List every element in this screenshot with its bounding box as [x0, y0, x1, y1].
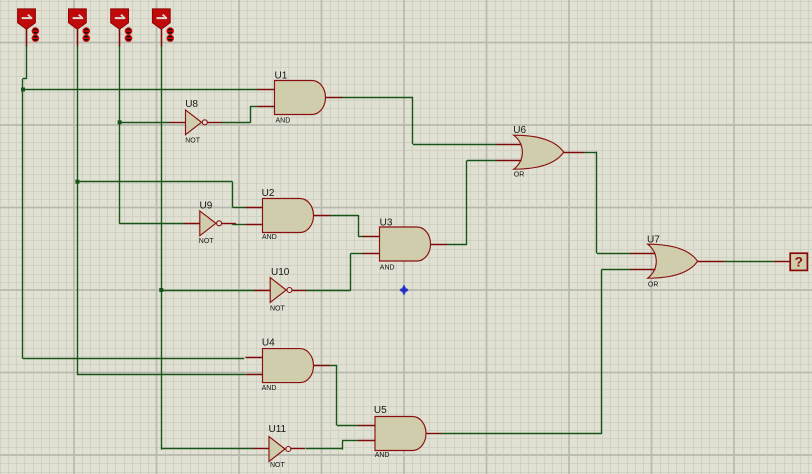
U5 input pin stubs [358, 426, 376, 441]
AND gate U3 [380, 227, 431, 261]
U1 output pin stub [326, 97, 343, 99]
wire net B vertical from terminal B [77, 46, 79, 375]
wire net C to U8 input [120, 122, 170, 124]
terminal D pin stem [161, 29, 163, 46]
label U3 [380, 218, 393, 229]
svg-text:U10: U10 [271, 267, 290, 278]
U4 input pin stubs [246, 358, 264, 375]
OR gate U7 [648, 244, 698, 278]
label U4 [262, 338, 275, 349]
svg-text:U9: U9 [200, 201, 213, 212]
junction node A [21, 88, 25, 92]
label AND [262, 385, 277, 392]
wire net D vertical from terminal D [161, 46, 163, 450]
OR gate U6 [514, 135, 564, 169]
label NOT [185, 138, 201, 145]
wire U6 output to U7 pin1 [584, 152, 631, 254]
svg-text:U3: U3 [380, 218, 393, 229]
svg-text:AND: AND [380, 265, 395, 272]
terminal B pin stem [77, 29, 79, 46]
U10 output pin stub [292, 290, 306, 292]
U6 output pin stub [564, 152, 585, 154]
svg-text:NOT: NOT [270, 462, 286, 469]
junction node C [118, 120, 122, 124]
output terminal pin stub [774, 261, 790, 263]
wire U3 output to U6 pin2 [447, 160, 497, 244]
wire net A vertical from terminal A [23, 46, 27, 359]
output terminal ? (unlabeled) [790, 253, 807, 270]
junction node B [75, 180, 79, 184]
U7 output pin stub [698, 261, 725, 263]
label U8 [185, 99, 198, 110]
svg-text:U2: U2 [262, 188, 275, 199]
U8 input pin stub [170, 122, 186, 124]
U4 output pin stub [314, 365, 331, 367]
label U1 [275, 70, 288, 81]
U3 output pin stub [431, 244, 448, 246]
U11 output pin stub [291, 448, 305, 450]
svg-text:AND: AND [262, 234, 277, 241]
label U9 [200, 201, 213, 212]
label AND [262, 234, 277, 241]
wire U2 output to U3 pin1 [330, 215, 363, 237]
terminal A pin stem [26, 29, 28, 46]
label AND [276, 118, 291, 125]
wire U8 output to U1 pin2 [221, 106, 258, 123]
U8 output pin stub [208, 122, 222, 124]
wire net C to U9 input [120, 223, 185, 225]
wire net B to U2 pin1 [77, 182, 246, 208]
svg-text:U11: U11 [269, 424, 287, 435]
svg-text:AND: AND [262, 385, 277, 392]
label OR [514, 171, 525, 178]
label NOT [270, 462, 286, 469]
label U7 [647, 234, 660, 245]
U2 input pin stubs [246, 208, 264, 225]
wire U5 output to U7 pin2 [441, 270, 632, 435]
AND gate U1 [275, 81, 326, 115]
NOT gate U11 [269, 437, 291, 462]
svg-text:U5: U5 [374, 405, 387, 416]
wire U9 output to U2 pin2 [232, 224, 246, 226]
terminal C pin stem [119, 29, 121, 46]
label NOT [270, 306, 286, 313]
U7 input pin stubs [631, 254, 656, 270]
svg-text:U8: U8 [185, 99, 198, 110]
label U5 [374, 405, 387, 416]
label NOT [199, 238, 215, 245]
label U11 [269, 424, 287, 435]
input terminal C (LOGICSTATE) [111, 9, 133, 42]
U9 input pin stub [184, 223, 200, 225]
svg-text:U4: U4 [262, 338, 275, 349]
wire U7 output to output terminal [724, 261, 774, 263]
label U10 [271, 267, 290, 278]
wire net B to U4 pin2 [77, 374, 245, 376]
label OR [648, 282, 659, 289]
svg-text:AND: AND [276, 118, 291, 125]
AND gate U5 [375, 417, 426, 451]
wire U1 output to U6 pin1 [342, 97, 498, 145]
wire U10 output to U3 pin2 [306, 254, 364, 291]
NOT gate U9 [200, 211, 222, 236]
wire U11 output to U5 pin2 [306, 441, 359, 450]
svg-text:NOT: NOT [199, 238, 215, 245]
label U6 [513, 125, 526, 136]
wire net C vertical from terminal C [119, 46, 121, 224]
input terminal D (LOGICSTATE) [152, 9, 174, 42]
U10 input pin stub [254, 290, 270, 292]
input terminal B (LOGICSTATE) [69, 9, 91, 42]
svg-text:OR: OR [648, 282, 659, 289]
U5 output pin stub [426, 433, 441, 435]
U6 input pin stubs [497, 145, 522, 161]
svg-text:AND: AND [375, 452, 390, 459]
wire U4 output to U5 pin1 [330, 365, 358, 426]
U1 input pin stubs [258, 90, 276, 107]
AND gate U4 [263, 349, 314, 383]
NOT gate U10 [270, 278, 292, 303]
label U2 [262, 188, 275, 199]
svg-text:NOT: NOT [185, 138, 201, 145]
origin marker (blue cross) [400, 285, 408, 295]
label AND [380, 265, 395, 272]
wire net A to U1 pin1 [23, 89, 258, 91]
svg-text:?: ? [795, 255, 803, 270]
NOT gate U8 [186, 110, 208, 135]
U3 input pin stubs [363, 237, 381, 254]
svg-text:U7: U7 [647, 234, 660, 245]
wire net D to U10 input [161, 290, 254, 292]
AND gate U2 [263, 199, 314, 233]
svg-text:U1: U1 [275, 70, 288, 81]
U2 output pin stub [314, 215, 331, 217]
junction node D [159, 288, 163, 292]
U11 input pin stub [253, 448, 269, 450]
svg-text:U6: U6 [513, 125, 526, 136]
svg-text:OR: OR [514, 171, 525, 178]
input terminal A (LOGICSTATE) [18, 9, 40, 42]
U9 output pin stub [222, 223, 236, 225]
label AND [375, 452, 390, 459]
wire net A to U4 pin1 [23, 358, 244, 360]
svg-text:NOT: NOT [270, 306, 286, 313]
wire net D to U11 input [161, 448, 253, 450]
